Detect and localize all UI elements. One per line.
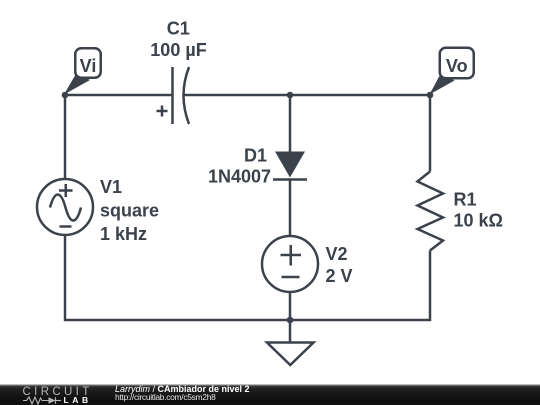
svg-text:V2: V2 [326, 244, 348, 264]
svg-text:D1: D1 [244, 146, 267, 166]
svg-text:100 µF: 100 µF [150, 40, 206, 60]
svg-text:C1: C1 [167, 19, 190, 39]
svg-text:2 V: 2 V [326, 266, 353, 286]
svg-text:1N4007: 1N4007 [208, 167, 271, 187]
svg-text:R1: R1 [454, 190, 477, 210]
svg-text:Vo: Vo [446, 56, 468, 76]
svg-text:square: square [100, 201, 159, 221]
svg-text:1 kHz: 1 kHz [100, 224, 147, 244]
svg-text:10 kΩ: 10 kΩ [454, 211, 503, 231]
svg-text:Vi: Vi [80, 56, 97, 76]
svg-text:V1: V1 [100, 177, 122, 197]
